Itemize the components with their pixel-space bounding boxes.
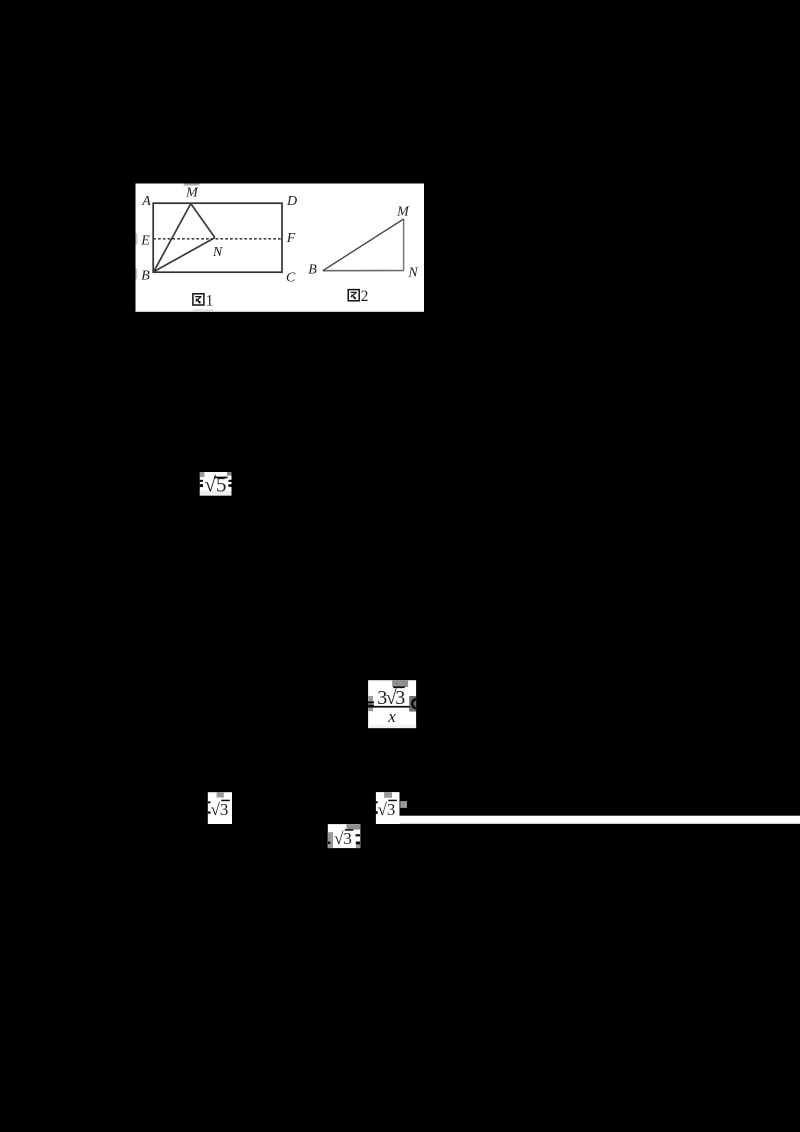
svg-text:x: x bbox=[387, 707, 396, 726]
svg-text:√5: √5 bbox=[204, 473, 226, 497]
svg-text:M: M bbox=[185, 185, 199, 200]
svg-text:√3: √3 bbox=[334, 829, 352, 848]
svg-text:N: N bbox=[407, 266, 418, 281]
svg-text:D: D bbox=[286, 194, 297, 209]
svg-text:2: 2 bbox=[361, 288, 369, 305]
svg-text:√3: √3 bbox=[211, 800, 229, 819]
svg-text:F: F bbox=[286, 231, 296, 246]
svg-text:M: M bbox=[396, 204, 410, 219]
svg-text:A: A bbox=[141, 194, 151, 209]
svg-text:√3: √3 bbox=[378, 800, 396, 819]
svg-text:C: C bbox=[286, 270, 296, 285]
svg-text:E: E bbox=[140, 234, 150, 249]
svg-text:N: N bbox=[212, 245, 223, 260]
svg-text:3√3: 3√3 bbox=[377, 687, 405, 709]
svg-text:B: B bbox=[141, 269, 150, 284]
svg-text:1: 1 bbox=[206, 292, 214, 309]
svg-text:B: B bbox=[308, 262, 317, 277]
